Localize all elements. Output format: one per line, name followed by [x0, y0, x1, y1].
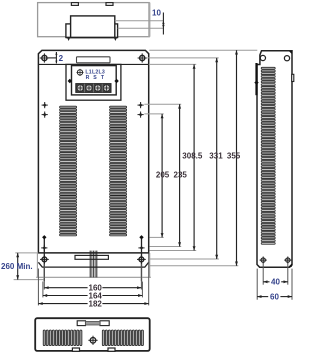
side view: right clip tab: [292, 74, 294, 81]
bottom view: right vent slots: [102, 330, 143, 346]
dimension 205: line: [161, 114, 164, 237]
top view: cover right foot: [114, 38, 117, 41]
side view: unit body outline: [257, 51, 292, 268]
front view: right keyhole slot line: [141, 236, 143, 281]
extension line: 160 left: [43, 264, 45, 290]
dimension 331: label: [209, 152, 223, 161]
front view: left vent louvers: [60, 106, 77, 236]
front view: DIN handle bar: [75, 255, 108, 259]
dimension 308.5: line: [193, 64, 196, 250]
bottom view: right slot: [100, 321, 109, 326]
svg-text:355: 355: [227, 152, 241, 161]
extension line: 164 right: [141, 282, 143, 298]
side view: bracket screw dot: [254, 80, 258, 84]
front view: lower-right keyhole mark: [138, 245, 144, 251]
side view: top-right corner mark: [289, 51, 292, 54]
extension line: 40 right: [287, 264, 289, 285]
dimension 355: label: [227, 152, 241, 161]
dimension 235: line: [178, 104, 181, 246]
extension line: 182 right: [148, 254, 150, 306]
dimension 260 Min.: line: [16, 253, 19, 280]
extension line: bracket bottom left: [14, 279, 45, 281]
dimension 10: line and arrows: [162, 13, 164, 35]
top view: terminal cover body: [71, 16, 115, 38]
front view: bottom-right mounting hole: [137, 255, 146, 264]
svg-text:235: 235: [174, 170, 188, 179]
top view: extension line for dim 10 (lower): [118, 27, 164, 29]
dimension 164: label: [89, 291, 103, 300]
top view: terminal cover outer lip: [66, 24, 118, 38]
extension line: upper keyhole lower mark: [144, 113, 163, 115]
front view: left keyhole top dot: [42, 235, 46, 239]
side view: right hanging hole: [284, 56, 289, 61]
front view: cover left screw: [68, 79, 72, 83]
front view: upper-left keyhole marks: [42, 102, 48, 118]
front view: terminal labels L1 L2 L3: [85, 70, 105, 76]
extension line: 40 left: [262, 264, 264, 285]
front view: right vent louvers: [110, 106, 127, 236]
front view: lower-left keyhole mark: [41, 245, 47, 251]
front view: terminal cover plate: [66, 64, 121, 100]
bottom view: right bottom notch: [108, 348, 115, 351]
svg-text:S: S: [93, 75, 97, 81]
dimension 331: line: [215, 58, 218, 259]
extension line: top hole centerline: [147, 57, 218, 59]
dimension 160: label: [89, 284, 103, 293]
dimension 10: label: [152, 8, 161, 17]
dimension 182: line: [38, 302, 148, 305]
dimension 2: label: [59, 54, 64, 63]
dimension 308.5: label: [182, 152, 203, 161]
front view: header separation line: [38, 63, 148, 65]
front view: right keyhole top dot: [139, 235, 143, 239]
front view: bottom-left mounting hole: [40, 255, 49, 264]
extension line: lower keyhole star: [149, 250, 196, 252]
extension line: bottom hole centerline: [149, 258, 219, 260]
dimension 164: line: [43, 294, 142, 297]
extension line: base bottom: [149, 265, 238, 267]
front view: top-right mounting hole: [138, 53, 147, 62]
front view: left keyhole slot line: [43, 236, 45, 281]
svg-text:2: 2: [59, 54, 64, 63]
extension line: 164 left: [42, 282, 44, 298]
side view: vent louvers: [261, 67, 275, 244]
bottom view: left bottom notch: [72, 348, 79, 351]
top view: unit body outline (top): [38, 3, 150, 37]
dimension 40: line: [263, 280, 288, 283]
dimension 160: line: [44, 286, 141, 289]
extension line: upper keyhole upper mark: [144, 103, 181, 105]
dimension 60: line: [257, 295, 292, 298]
side view: bottom-right corner mark: [288, 263, 291, 267]
side view: left hanging hole: [260, 55, 265, 60]
extension line: 60 left: [256, 269, 258, 300]
dimension 235: label: [174, 170, 188, 179]
svg-text:205: 205: [156, 170, 170, 179]
front view: DIN rail hatch column: [90, 251, 97, 278]
bottom view: left vent slots: [43, 330, 82, 346]
dimension 355: line: [235, 50, 238, 266]
front view: top slot: [77, 57, 111, 64]
extension line: 160 right: [140, 264, 142, 290]
extension line: keyhole top dots: [149, 236, 163, 238]
front view: base plate sides: [37, 253, 149, 277]
front view: base plate bottom edge: [38, 262, 148, 267]
svg-text:182: 182: [89, 300, 103, 309]
dimension 182: label: [89, 300, 103, 309]
svg-text:40: 40: [271, 278, 280, 287]
front view: upper-right keyhole marks: [138, 102, 144, 118]
dimension 60: label: [270, 292, 279, 301]
front view: terminal label T: [101, 75, 105, 81]
dimension 205: label: [156, 170, 170, 179]
front view: ground terminal symbol: [77, 69, 84, 76]
extension line: lower keyhole marks: [149, 246, 181, 248]
svg-text:260 Min.: 260 Min.: [1, 262, 33, 271]
svg-text:10: 10: [152, 8, 161, 17]
extension line: body top edge: [149, 49, 257, 51]
side view: bottom-right screw: [284, 257, 291, 264]
svg-text:R: R: [86, 75, 90, 81]
side view: bottom-left screw: [260, 257, 267, 264]
front view: cover right screw: [114, 79, 118, 83]
svg-text:60: 60: [270, 292, 279, 301]
front view: terminal screws x4: [76, 84, 111, 93]
extension line: header line right: [149, 63, 196, 65]
front view: terminal block box: [72, 66, 117, 95]
bottom view: center mounting hole: [88, 336, 97, 345]
side view: mounting bracket edge: [255, 63, 257, 95]
front view: ground line: [36, 276, 151, 278]
front view: top-left mounting hole: [40, 53, 49, 62]
dimension 40: label: [271, 278, 280, 287]
extension line: body bottom left: [15, 252, 38, 254]
front view: terminal label R: [86, 75, 90, 81]
front view: terminal label S: [93, 75, 97, 81]
extension line: 182 left: [37, 269, 39, 306]
dimension 260 Min.: label: [1, 262, 33, 271]
svg-text:331: 331: [209, 152, 223, 161]
bottom view: center gray slot: [86, 321, 101, 325]
dimension 2: leader and line: [48, 52, 58, 63]
svg-text:308.5: 308.5: [182, 152, 203, 161]
extension line: 60 right: [291, 269, 293, 300]
front view: unit body outline: [38, 50, 148, 253]
top view: cover left foot: [67, 38, 70, 41]
top view: cover bottom edge: [66, 37, 118, 39]
top view: left mounting notch: [71, 3, 78, 6]
bottom view: unit body outline: [35, 318, 150, 351]
bottom view: left slot: [77, 321, 85, 326]
top view: extension line for dim 10 (upper): [115, 20, 164, 22]
top view: right mounting notch: [106, 3, 113, 6]
